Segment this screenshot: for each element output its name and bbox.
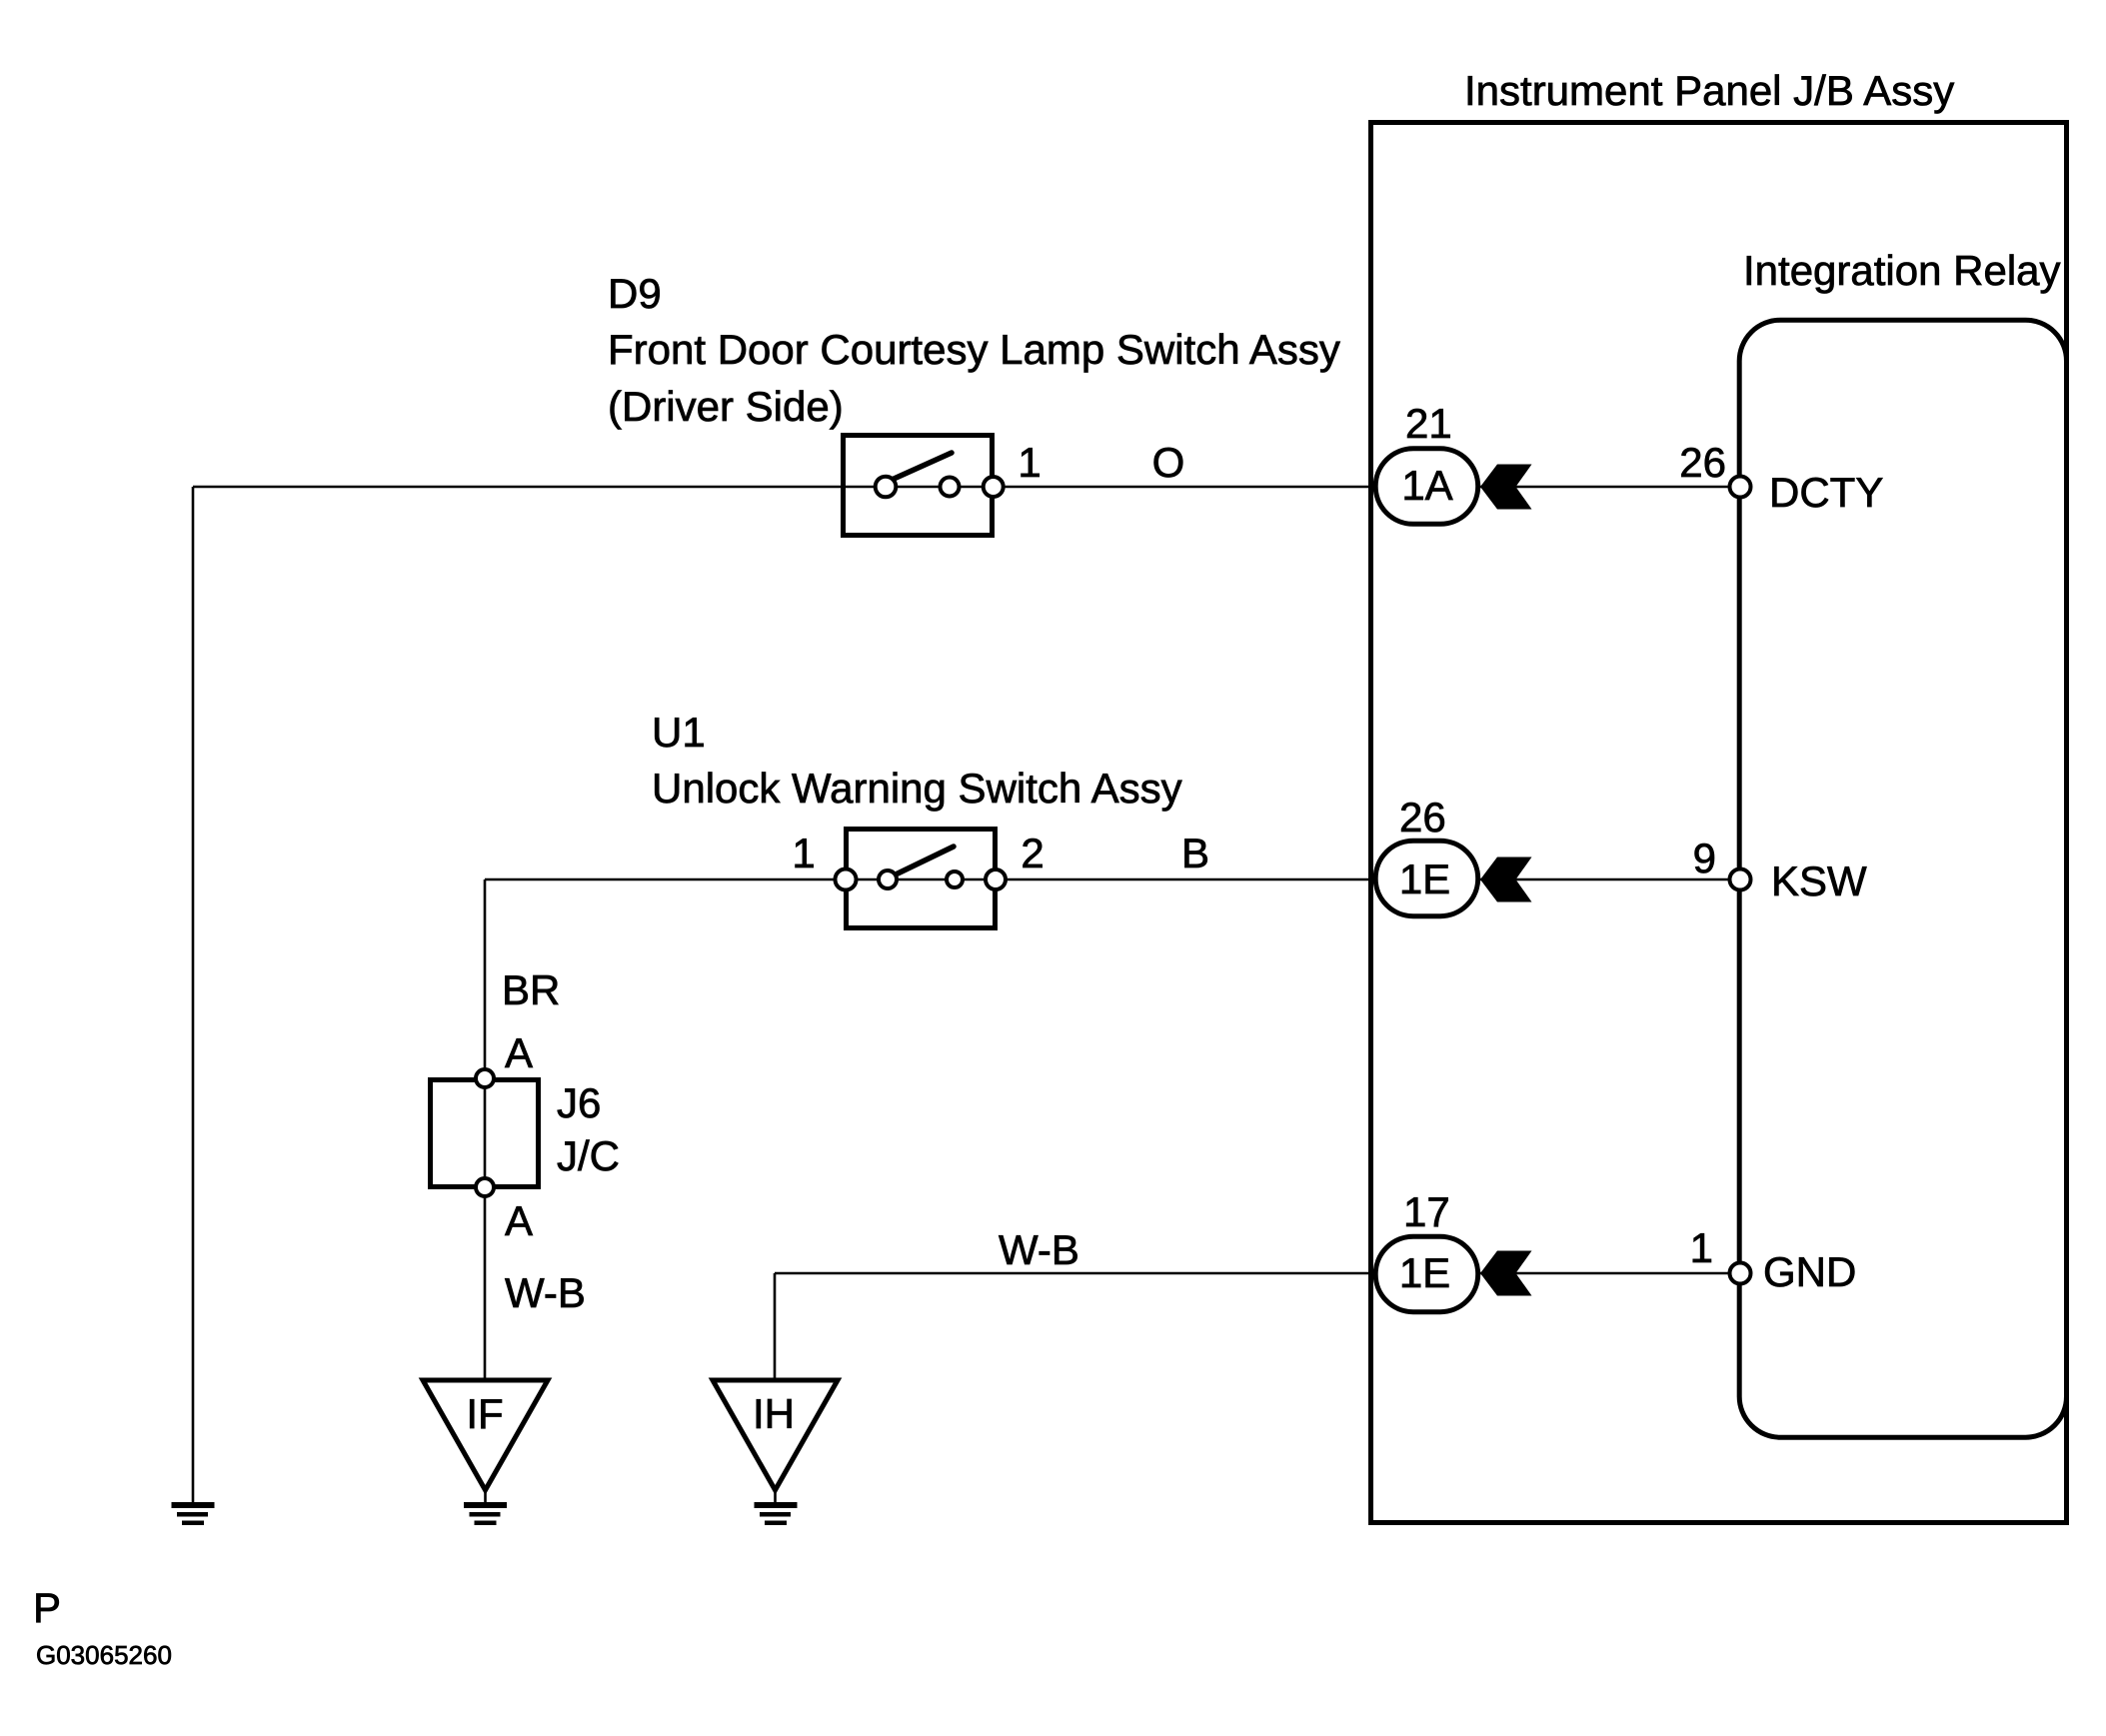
wire: row2 horizontal from riser to connector 1E bbox=[485, 878, 1376, 881]
svg-text:1E: 1E bbox=[1399, 856, 1450, 902]
svg-text:BR: BR bbox=[502, 966, 560, 1013]
svg-text:Front Door Courtesy Lamp Switc: Front Door Courtesy Lamp Switch Assy bbox=[608, 326, 1340, 373]
svg-text:1: 1 bbox=[792, 830, 815, 876]
svg-text:IF: IF bbox=[466, 1390, 503, 1437]
relay pin 26 circle bbox=[1730, 477, 1751, 498]
svg-text:DCTY: DCTY bbox=[1769, 469, 1883, 516]
svg-text:1: 1 bbox=[1018, 439, 1041, 486]
junction J6 pin A bottom circle bbox=[476, 1178, 494, 1196]
switch D9 box bbox=[844, 436, 993, 536]
svg-text:A: A bbox=[505, 1197, 533, 1244]
svg-text:2: 2 bbox=[1021, 830, 1044, 876]
Integration Relay box bbox=[1739, 320, 2066, 1437]
relay pin 9 circle bbox=[1730, 869, 1751, 890]
ground IH stub bbox=[774, 1490, 777, 1503]
svg-text:J6: J6 bbox=[557, 1079, 601, 1126]
switch U1 pin 2 circle bbox=[986, 869, 1006, 889]
svg-text:D9: D9 bbox=[608, 270, 662, 317]
svg-text:Instrument Panel J/B Assy: Instrument Panel J/B Assy bbox=[1464, 67, 1954, 114]
ground IF stub bbox=[484, 1490, 487, 1503]
wire: left riser down to ground bbox=[192, 487, 195, 1503]
relay pin 1 circle bbox=[1730, 1263, 1751, 1284]
connector oval 1E (17) bbox=[1375, 1236, 1478, 1312]
junction J6 pin A top circle bbox=[476, 1069, 494, 1087]
wire: riser x=485 down through J6 to IF triangle bbox=[484, 879, 487, 1381]
svg-text:26: 26 bbox=[1679, 439, 1726, 486]
svg-text:1A: 1A bbox=[1401, 462, 1452, 509]
Instrument Panel J/B box bbox=[1371, 123, 2067, 1523]
svg-text:1: 1 bbox=[1690, 1224, 1713, 1271]
wire: row2 from connector 1E arrow to relay pin 9 bbox=[1480, 878, 1740, 881]
wire: row3 W-B horizontal to connector 1E bbox=[775, 1272, 1376, 1275]
connector oval 1E (26) bbox=[1375, 841, 1478, 916]
ground IF symbol bbox=[464, 1502, 507, 1525]
svg-text:GND: GND bbox=[1763, 1248, 1856, 1295]
svg-text:26: 26 bbox=[1399, 794, 1446, 841]
wire: row3 from connector 1E arrow to relay pin 1 bbox=[1480, 1272, 1740, 1275]
svg-text:G03065260: G03065260 bbox=[36, 1640, 172, 1670]
switch U1 pin 1 circle bbox=[836, 869, 857, 890]
svg-text:P: P bbox=[33, 1584, 61, 1631]
wire: riser x=775 down to IH triangle bbox=[774, 1273, 777, 1381]
arrow into 1A bbox=[1480, 465, 1532, 510]
svg-text:W-B: W-B bbox=[999, 1226, 1079, 1273]
svg-text:B: B bbox=[1181, 830, 1209, 876]
svg-text:O: O bbox=[1152, 439, 1185, 486]
ground IH symbol bbox=[755, 1502, 798, 1525]
arrow into 1E row3 bbox=[1480, 1251, 1532, 1296]
arrow into 1E row2 bbox=[1480, 858, 1532, 902]
switch D9 contact circle middle bbox=[941, 478, 960, 497]
ground IF triangle bbox=[423, 1380, 548, 1490]
switch U1 lever bbox=[896, 847, 954, 874]
svg-text:1E: 1E bbox=[1399, 1249, 1450, 1296]
switch D9 pin 1 circle bbox=[984, 477, 1004, 497]
svg-text:(Driver Side): (Driver Side) bbox=[608, 383, 844, 430]
svg-text:KSW: KSW bbox=[1771, 858, 1867, 904]
ground IH triangle bbox=[713, 1380, 838, 1490]
switch D9 contact circle left bbox=[876, 477, 897, 498]
ground left symbol bbox=[172, 1502, 215, 1525]
svg-text:9: 9 bbox=[1693, 835, 1716, 881]
svg-text:Integration Relay: Integration Relay bbox=[1743, 247, 2061, 294]
switch U1 contact circle left bbox=[879, 870, 897, 888]
svg-text:W-B: W-B bbox=[505, 1269, 586, 1316]
svg-text:U1: U1 bbox=[652, 709, 706, 756]
svg-text:Unlock Warning Switch Assy: Unlock Warning Switch Assy bbox=[652, 765, 1182, 812]
switch D9 lever bbox=[892, 453, 952, 480]
switch U1 contact circle right bbox=[947, 871, 963, 887]
svg-text:21: 21 bbox=[1405, 400, 1452, 447]
switch U1 box bbox=[847, 830, 996, 928]
junction J6 box bbox=[431, 1080, 539, 1187]
svg-text:17: 17 bbox=[1403, 1188, 1450, 1235]
svg-text:J/C: J/C bbox=[557, 1132, 620, 1179]
connector oval 1A (21) bbox=[1375, 449, 1478, 525]
wire: row1 horizontal from left riser to connector 1A bbox=[193, 486, 1376, 489]
wire: row1 from connector 1A arrow to relay pin 26 bbox=[1480, 486, 1740, 489]
svg-text:IH: IH bbox=[753, 1390, 795, 1437]
svg-text:A: A bbox=[505, 1029, 533, 1076]
